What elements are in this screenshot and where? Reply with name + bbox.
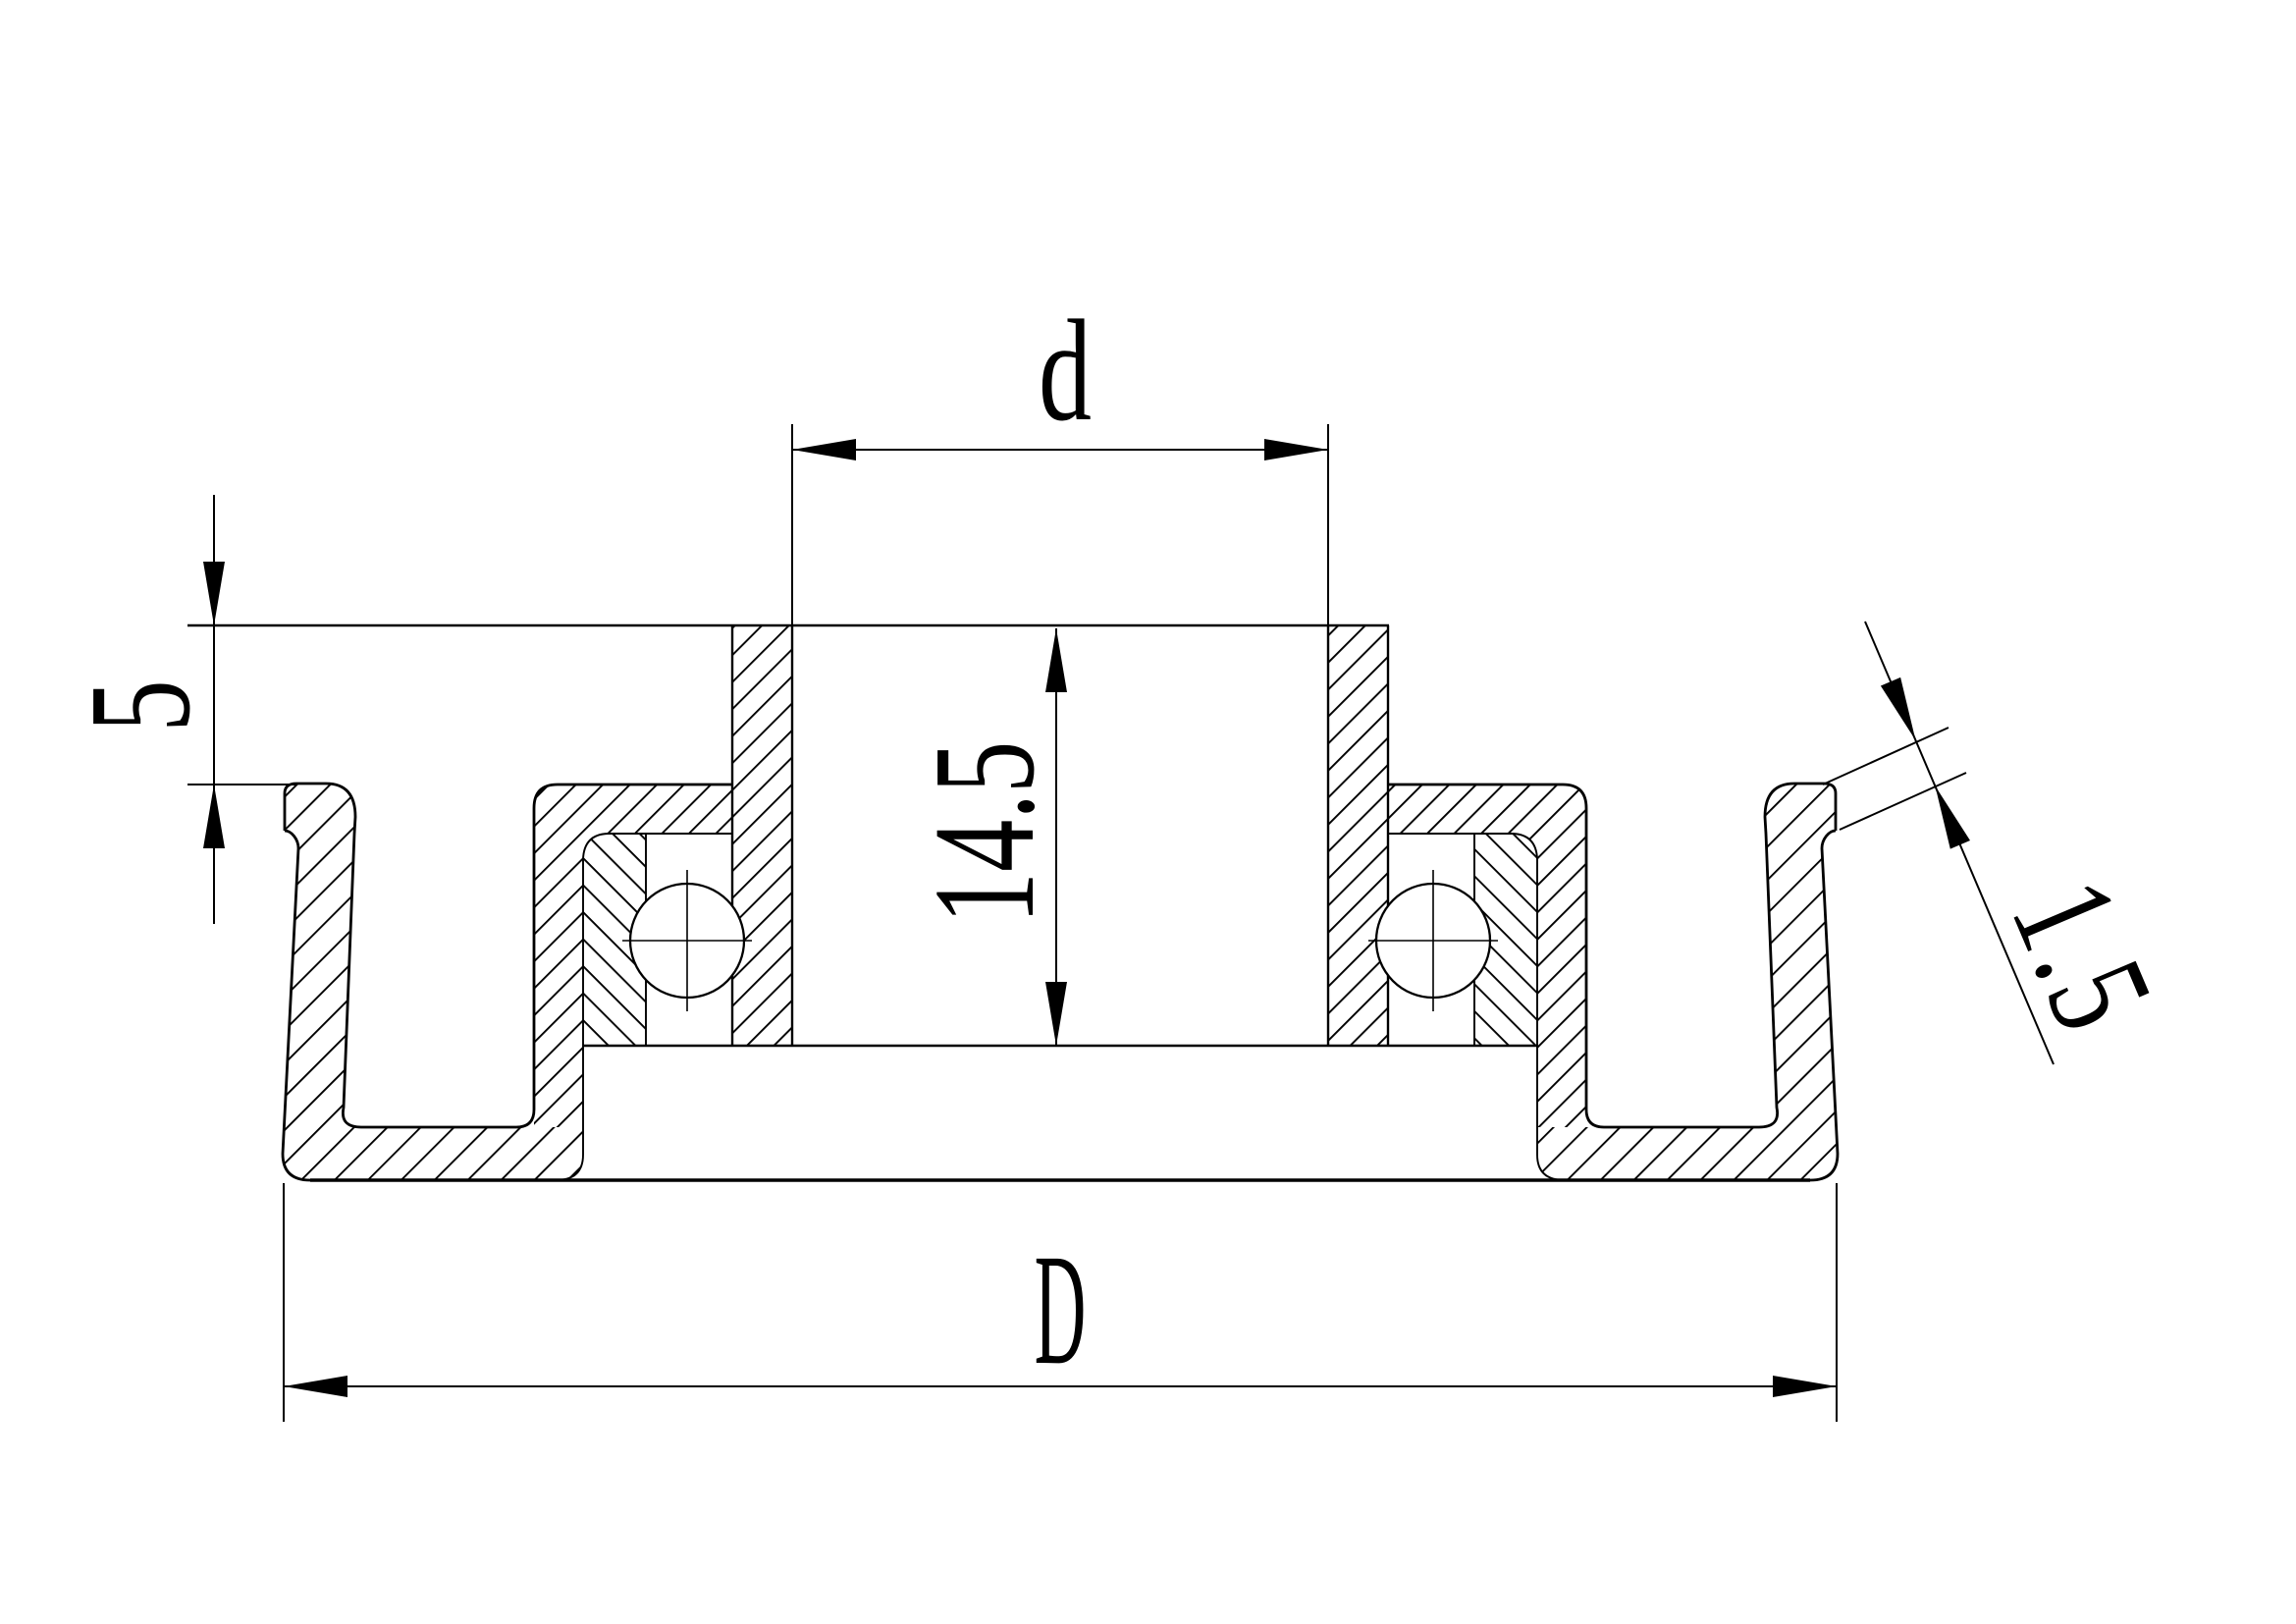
hub top line [187, 624, 1389, 626]
dim D left arrow [284, 1376, 347, 1397]
svg-text:D: D [1035, 1222, 1087, 1398]
left hub wall outer edge (ball notch gap) [731, 625, 733, 1046]
dim d left arrow [792, 439, 856, 460]
right bearing ball [1376, 884, 1490, 998]
dim 1.5 upper arrow [1881, 677, 1916, 740]
dim 5 lower arrow [203, 785, 225, 848]
dim D extension lines [284, 1183, 1837, 1422]
dim 1.5 extension lines [1823, 728, 1949, 785]
left bearing outer race hatch fill [583, 835, 646, 1046]
dim D line [284, 1385, 1837, 1387]
left housing/race boundary [556, 834, 732, 1180]
bearing seat line [583, 1045, 1537, 1047]
bore right edge [1327, 625, 1329, 1046]
dim 14.5 top arrow [1045, 628, 1067, 692]
dim 14.5 line [1055, 628, 1057, 1046]
left bearing ball [630, 884, 744, 998]
left race inner edge (ball notch gap) [645, 835, 647, 1046]
right bearing outer race hatch fill [1474, 835, 1537, 1046]
dim 5 line [213, 495, 215, 924]
dimension lines [187, 424, 2054, 1422]
svg-text:5: 5 [59, 679, 220, 731]
left bearing housing wall hatch fill [534, 785, 732, 1127]
dim 1.5 lower arrow [1935, 786, 1970, 849]
dim d extension lines [792, 424, 1328, 625]
right race inner edge (ball notch gap) [1473, 835, 1475, 1046]
base bottom line [310, 1178, 1810, 1181]
dim 5 extension tick [187, 784, 297, 785]
main outlines [187, 625, 1838, 1180]
right housing/race boundary [1388, 834, 1565, 1180]
dim d right arrow [1264, 439, 1328, 460]
left flange channel hatch fill [283, 784, 583, 1180]
right flange channel hatch fill [1537, 784, 1838, 1180]
svg-text:14.5: 14.5 [903, 741, 1064, 924]
dim 14.5 bottom arrow [1045, 982, 1067, 1046]
left hub wall hatch fill [732, 625, 792, 1046]
ball center crosshairs [622, 870, 1498, 1011]
dim D right arrow [1773, 1376, 1837, 1397]
dim 1.5 line [1865, 622, 2054, 1064]
dim d line [792, 449, 1328, 451]
dim 5 upper arrow [203, 562, 225, 625]
right hub wall hatch fill [1328, 625, 1388, 1046]
svg-text:d: d [1039, 292, 1092, 452]
right hub wall outer edge (ball notch gap) [1387, 625, 1389, 1046]
bore left edge [791, 625, 793, 1046]
right bearing housing wall hatch fill [1388, 785, 1586, 1127]
left flange channel outline [285, 784, 732, 1127]
right flange channel outline [1388, 784, 1836, 1127]
